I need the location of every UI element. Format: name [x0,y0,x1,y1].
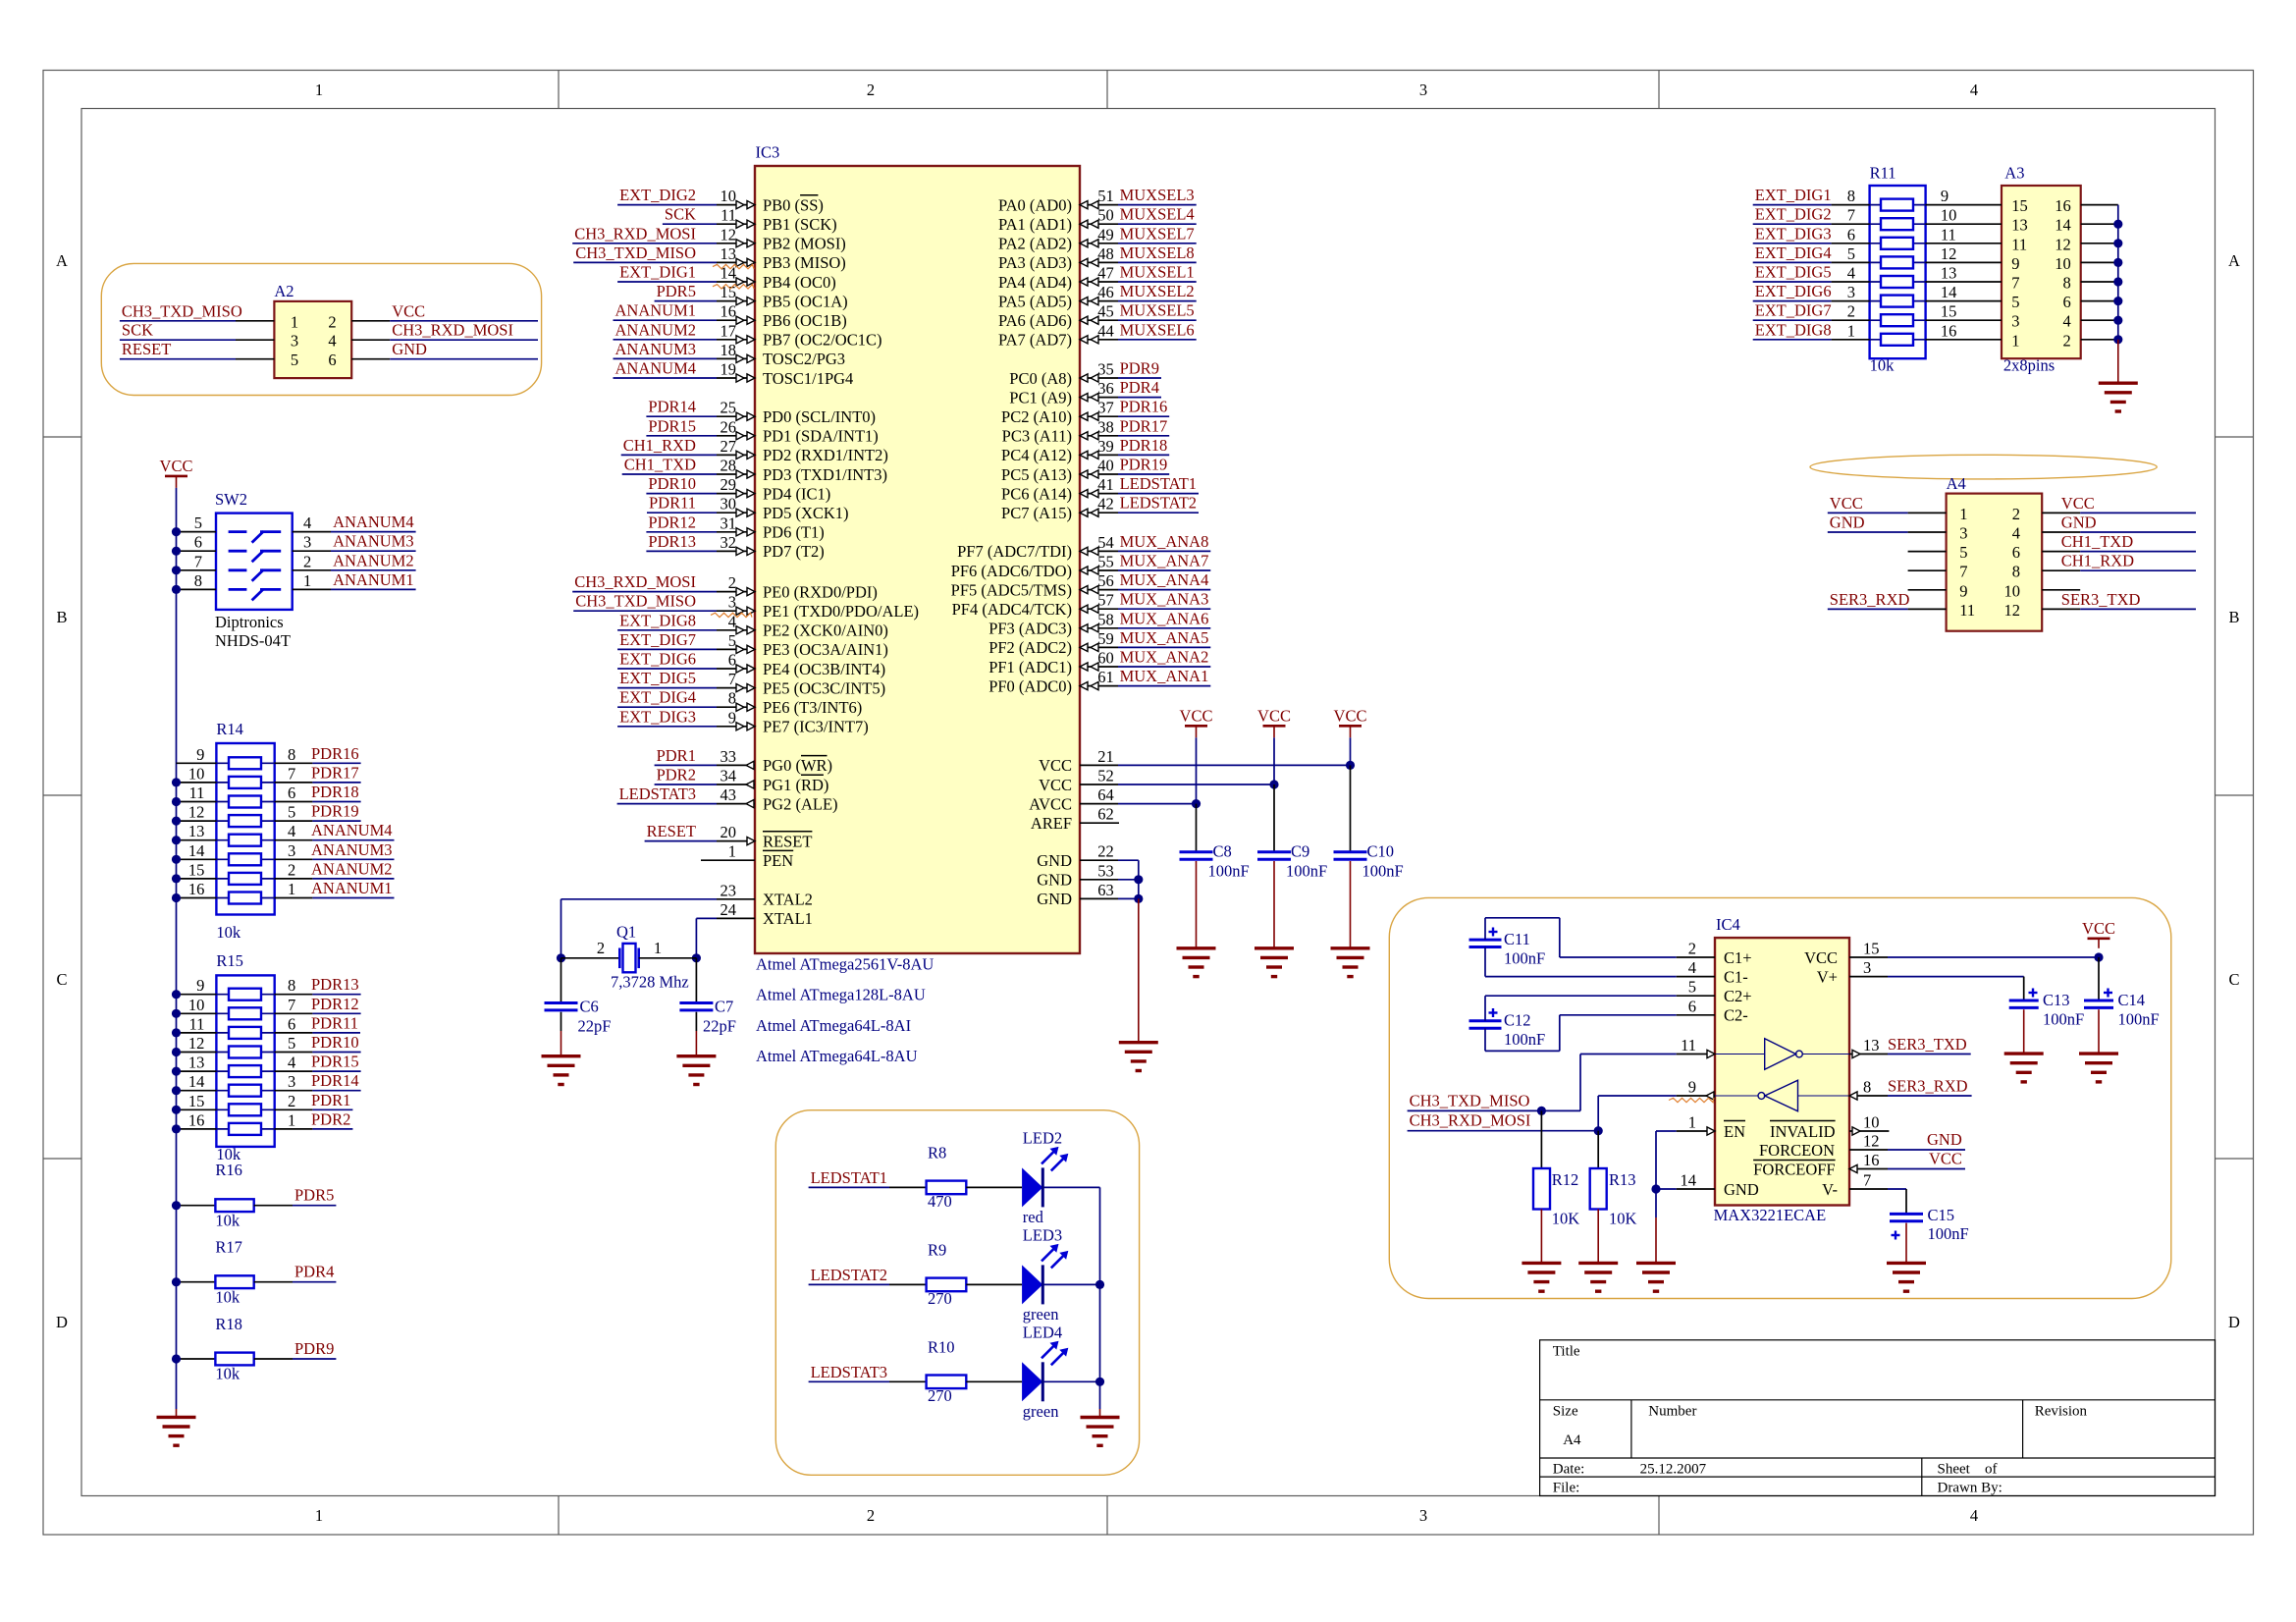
IC3 pin 38 PC3 (A11) net PDR17 [1080,435,1118,437]
svg-text:24: 24 [721,900,737,919]
svg-text:4: 4 [2062,312,2070,331]
svg-text:34: 34 [721,767,737,785]
svg-text:C1+: C1+ [1724,948,1752,967]
IC3 pin 53 GND wire [1080,879,1118,881]
R14 element 8 [216,897,274,899]
ERC marks orange [713,264,754,268]
stub A4 pin 5 [1908,551,1947,553]
svg-text:GND: GND [2061,514,2097,532]
svg-text:13: 13 [2011,216,2028,235]
svg-text:PA2 (AD2): PA2 (AD2) [998,235,1072,253]
svg-text:PDR9: PDR9 [294,1339,334,1358]
svg-text:PDR5: PDR5 [294,1186,334,1205]
svg-text:3: 3 [728,593,736,612]
svg-text:PDR2: PDR2 [311,1109,350,1128]
svg-text:6: 6 [194,533,202,552]
wire VCC column C8 [1196,737,1198,803]
group outline ellipse (A4) [1810,455,2157,479]
svg-text:10k: 10k [215,1287,240,1306]
svg-text:470: 470 [928,1192,952,1211]
wire net EXT_DIG6 to R11 pin 3 [1753,300,1832,302]
svg-text:PB4 (OC0): PB4 (OC0) [763,273,836,292]
wire R14 pin 7 net PDR17 [275,782,313,784]
svg-text:LED4: LED4 [1023,1323,1062,1341]
wire LED2 to bus [1042,1186,1099,1188]
capacitor C6 [561,958,562,1002]
svg-text:C: C [56,970,67,989]
svg-text:10: 10 [188,764,205,783]
svg-text:TOSC2/PG3: TOSC2/PG3 [763,350,845,368]
wire net EXT_DIG2 to R11 pin 7 [1753,223,1832,225]
svg-text:40: 40 [1097,457,1114,475]
wire R15 pin 10 [177,1012,217,1014]
svg-text:13: 13 [188,1054,205,1072]
wire R11 pin 14 to A3 [1926,300,2002,302]
svg-text:ANANUM4: ANANUM4 [615,359,697,378]
wire R15 pin 4 net PDR15 [275,1070,313,1072]
capacitor C8 [1180,850,1213,853]
svg-text:GND: GND [392,340,427,358]
wire IC4 pin 1 EN to GND net [1656,1130,1677,1132]
wire R10 to LED4 [966,1380,1022,1382]
svg-text:9: 9 [2011,254,2019,273]
svg-text:PD5 (XCK1): PD5 (XCK1) [763,504,849,522]
svg-text:VCC: VCC [2082,919,2115,938]
svg-text:Drawn By:: Drawn By: [1938,1481,2002,1496]
ground (C13) [2004,1052,2044,1054]
svg-text:PDR15: PDR15 [648,416,696,435]
wire C12- to IC4 pin 6 [1484,1028,1486,1051]
IC3 pin 48 PA3 (AD3) net MUXSEL8 [1080,261,1118,263]
svg-text:EXT_DIG5: EXT_DIG5 [619,669,696,687]
svg-text:10: 10 [2055,254,2071,273]
wire R15 pin 5 net PDR10 [275,1052,313,1054]
svg-text:A3: A3 [2004,164,2024,183]
svg-text:PB1 (SCK): PB1 (SCK) [763,215,837,234]
svg-text:ANANUM2: ANANUM2 [311,859,393,878]
svg-text:VCC: VCC [1804,948,1838,967]
IC3 pin 18 TOSC2/PG3 net ANANUM3 [614,357,718,359]
svg-text:5: 5 [1688,978,1696,997]
svg-text:EN: EN [1724,1122,1745,1141]
A3 ground bus vertical [2117,205,2119,340]
svg-text:6: 6 [728,651,736,670]
svg-text:VCC: VCC [1180,707,1213,726]
wire R11 pin 15 to A3 [1926,319,2002,321]
wire IC4 pin 3 V+ [1849,976,1888,978]
junction dot A3 pin 2 [2113,335,2122,344]
svg-text:A: A [2228,251,2240,270]
svg-text:SCK: SCK [665,205,696,224]
svg-text:Sheet: Sheet [1938,1462,1971,1478]
IC3 pin 57 PF4 (ADC4/TCK) net MUX_ANA3 [1080,608,1118,610]
svg-text:GND: GND [1830,514,1865,532]
R14 element 7 [216,878,274,880]
svg-text:1: 1 [291,312,298,331]
svg-text:270: 270 [928,1289,952,1308]
R15 element 8 [216,1128,274,1130]
svg-text:ANANUM2: ANANUM2 [615,320,697,339]
svg-text:3: 3 [1847,283,1855,301]
svg-text:23: 23 [721,881,737,899]
IC3 pin 25 PD0 net PDR14 [646,415,717,417]
IC3 pin 55 PF6 (ADC6/TDO) net MUX_ANA7 [1080,569,1118,571]
svg-text:2: 2 [728,573,736,592]
wire A2 pin 2 net VCC [351,320,390,322]
svg-text:EXT_DIG3: EXT_DIG3 [619,707,696,726]
wire A4 pin 3 net GND [1828,531,1908,533]
wire net EXT_DIG5 to R11 pin 4 [1753,281,1832,283]
svg-text:EXT_DIG7: EXT_DIG7 [1755,301,1832,320]
svg-text:PA5 (AD5): PA5 (AD5) [998,292,1072,310]
svg-text:13: 13 [721,244,737,263]
ground (LED bus) [1081,1416,1120,1419]
svg-text:PDR14: PDR14 [311,1071,359,1090]
svg-text:PD2 (RXD1/INT2): PD2 (RXD1/INT2) [763,446,888,464]
IC3 pin 61 PF0 (ADC0) net MUX_ANA1 [1080,685,1118,687]
svg-text:EXT_DIG2: EXT_DIG2 [1755,205,1832,224]
svg-text:1: 1 [1688,1113,1696,1132]
ground (C15) [1887,1262,1926,1265]
svg-text:13: 13 [188,822,205,840]
svg-text:EXT_DIG4: EXT_DIG4 [619,688,696,707]
svg-text:LED2: LED2 [1023,1128,1062,1147]
svg-text:PE0 (RXD0/PDI): PE0 (RXD0/PDI) [763,582,878,601]
wire R15 pin 14 [177,1090,217,1092]
svg-text:10K: 10K [1552,1210,1580,1228]
SW2 switch element 1 [229,530,247,533]
IC3 pin 8 PE6 net EXT_DIG4 [617,706,717,708]
svg-text:12: 12 [2004,601,2021,620]
svg-text:PG0 (WR): PG0 (WR) [763,756,832,775]
svg-text:21: 21 [1097,747,1114,766]
svg-text:CH1_RXD: CH1_RXD [2061,552,2134,570]
svg-text:PDR13: PDR13 [311,975,359,994]
SW2 switch element 3 [229,568,247,571]
IC3 pin 47 PA4 (AD4) net MUXSEL1 [1080,281,1118,283]
svg-text:C14: C14 [2118,991,2146,1009]
svg-text:11: 11 [189,784,205,802]
LED cathode bus [1099,1187,1101,1409]
R11 element 4 [1870,261,1926,263]
wire R16 net PDR5 [254,1205,293,1207]
svg-text:10k: 10k [215,1211,240,1229]
svg-text:6: 6 [288,1014,295,1033]
svg-text:10: 10 [2004,581,2021,600]
svg-text:GND: GND [1927,1130,1962,1149]
svg-text:EXT_DIG8: EXT_DIG8 [1755,320,1832,339]
wire IC4 pin 13 SER3_TXD [1849,1054,1888,1055]
svg-text:MUXSEL8: MUXSEL8 [1120,243,1195,262]
svg-text:CH1_RXD: CH1_RXD [623,436,696,455]
ground (C14) [2079,1052,2118,1054]
wire R11 pin 16 to A3 [1926,339,2002,341]
IC3 pin 54 PF7 (ADC7/TDI) net MUX_ANA8 [1080,550,1118,552]
svg-text:15: 15 [188,860,205,879]
svg-text:PDR17: PDR17 [1120,416,1168,435]
wire IC4 pin 8 SER3_RXD [1849,1095,1888,1097]
svg-text:PDR13: PDR13 [648,532,696,551]
svg-text:SER3_RXD: SER3_RXD [1830,590,1910,609]
svg-text:16: 16 [188,880,205,898]
svg-text:File:: File: [1553,1481,1580,1496]
wire R15 pin 2 net PDR1 [275,1108,313,1110]
svg-text:7: 7 [1863,1171,1871,1190]
IC3 pin 13 PB3 net CH3_TXD_MISO [573,261,717,263]
svg-text:RESET: RESET [647,822,696,840]
svg-text:6: 6 [328,351,336,369]
junction dot A3 pin 8 [2113,277,2122,286]
wire R15 pin 1 net PDR2 [275,1128,313,1130]
junction dot R15 pin 14 [172,1086,181,1095]
svg-text:CH3_RXD_MOSI: CH3_RXD_MOSI [392,321,513,340]
svg-text:9: 9 [196,976,204,995]
wire R14 pin 11 [177,801,217,803]
svg-text:2: 2 [867,81,875,99]
svg-text:V+: V+ [1817,967,1838,986]
group outline RS232 (IC4) [1389,897,2171,1298]
svg-text:TOSC1/1PG4: TOSC1/1PG4 [763,369,853,388]
svg-text:PC1 (A9): PC1 (A9) [1009,388,1072,406]
svg-text:10K: 10K [1609,1210,1637,1228]
svg-text:4: 4 [1970,81,1978,99]
svg-text:50: 50 [1097,206,1114,225]
IC3 pin 60 PF1 (ADC1) net MUX_ANA2 [1080,666,1118,668]
wire R11 pin 11 to A3 [1926,243,2002,244]
svg-text:Atmel ATmega128L-8AU: Atmel ATmega128L-8AU [756,986,926,1004]
svg-text:PD4 (IC1): PD4 (IC1) [763,484,830,503]
R15 element 7 [216,1108,274,1110]
svg-text:MAX3221ECAE: MAX3221ECAE [1714,1206,1827,1224]
svg-text:16: 16 [1941,321,1957,340]
svg-text:LEDSTAT3: LEDSTAT3 [619,784,696,803]
svg-text:A4: A4 [1563,1433,1581,1448]
svg-text:30: 30 [721,495,737,514]
svg-text:Revision: Revision [2035,1403,2088,1419]
IC3 pin 10 PB0 net EXT_DIG2 [617,204,717,206]
svg-text:11: 11 [721,206,736,225]
wire R14 pin 13 [177,839,217,841]
wire SW2 pin 4 net ANANUM4 [293,531,331,533]
svg-text:R9: R9 [928,1241,946,1260]
svg-text:D: D [2228,1313,2240,1331]
svg-text:D: D [56,1313,68,1331]
svg-text:R18: R18 [215,1315,242,1333]
wire SW2 pin 1 net ANANUM1 [293,588,331,590]
svg-text:green: green [1023,1305,1059,1324]
junction dot R12 tap [1537,1107,1546,1115]
ground (C10) [1331,946,1370,949]
wire R14 pin 14 [177,858,217,860]
svg-text:CH3_RXD_MOSI: CH3_RXD_MOSI [1410,1111,1531,1130]
svg-text:PDR12: PDR12 [648,513,696,531]
svg-text:20: 20 [721,823,737,841]
wire net EXT_DIG7 to R11 pin 2 [1753,319,1832,321]
svg-text:red: red [1023,1208,1044,1226]
svg-text:PDR1: PDR1 [657,746,696,765]
wire C11- to IC4 pin 4 [1484,947,1486,977]
svg-text:ANANUM3: ANANUM3 [311,840,393,859]
R14 element 5 [216,839,274,841]
svg-text:10: 10 [1863,1113,1880,1132]
svg-text:CH3_TXD_MISO: CH3_TXD_MISO [575,592,696,611]
svg-text:EXT_DIG3: EXT_DIG3 [1755,224,1832,243]
wire R8 to LED2 [966,1186,1022,1188]
svg-text:48: 48 [1097,244,1114,263]
svg-text:8: 8 [728,689,736,708]
svg-text:47: 47 [1097,264,1114,283]
svg-text:3: 3 [1959,524,1967,543]
svg-text:100nF: 100nF [1362,862,1404,881]
wire C12+ to IC4 pin 5 [1484,996,1486,1021]
svg-text:MUXSEL6: MUXSEL6 [1120,320,1195,339]
svg-text:28: 28 [721,457,737,475]
svg-text:3: 3 [288,1072,295,1091]
svg-text:9: 9 [1959,581,1967,600]
svg-text:CH3_RXD_MOSI: CH3_RXD_MOSI [574,572,696,591]
ground (R12) [1522,1262,1561,1265]
ground (left bus) [157,1416,196,1419]
resistor R13 [1597,1131,1599,1168]
svg-text:1: 1 [1959,505,1967,523]
svg-text:12: 12 [188,803,205,822]
stub IC4 pin 10 INVALID [1849,1130,1889,1132]
svg-text:C9: C9 [1291,842,1309,861]
svg-text:2: 2 [2062,331,2070,350]
wire A4 pin 12 net SER3_TXD [2042,608,2080,610]
svg-text:13: 13 [1863,1036,1880,1054]
junction dot SW2 pin 6 [172,547,181,556]
IC3 pin 27 PD2 net CH1_RXD [621,454,717,456]
svg-text:8: 8 [2012,563,2020,581]
svg-text:MUXSEL7: MUXSEL7 [1120,224,1195,243]
svg-text:PDR2: PDR2 [657,766,696,784]
wire R15 pin 9 [177,994,217,996]
wire A4 pin 8 net CH1_RXD [2042,569,2080,571]
IC3 pin 5 PE3 net EXT_DIG7 [617,648,717,650]
svg-text:PF1 (ADC1): PF1 (ADC1) [988,658,1072,676]
svg-text:EXT_DIG8: EXT_DIG8 [619,611,696,629]
svg-text:CH3_TXD_MISO: CH3_TXD_MISO [122,301,242,320]
junction dot SW2 pin 7 [172,566,181,574]
IC3 pin 43 PG2 net LEDSTAT3 [617,803,717,805]
ground (IC4 EN/GND) [1636,1262,1676,1265]
R11 element 7 [1870,319,1926,321]
svg-text:VCC: VCC [2061,494,2095,513]
svg-text:LEDSTAT2: LEDSTAT2 [811,1266,887,1284]
IC3 pin 52 VCC wire [1080,784,1118,785]
junction dot SW2 pin 5 [172,527,181,536]
wire SW2 pin 5 [177,531,217,533]
IC3 pin 3 PE1 net CH3_TXD_MISO [573,610,717,612]
svg-text:PB0 (SS): PB0 (SS) [763,195,824,214]
svg-text:27: 27 [721,437,737,456]
svg-text:31: 31 [721,514,737,532]
IC3 pin 1 PEN [701,859,755,861]
svg-text:MUX_ANA1: MUX_ANA1 [1120,667,1209,685]
svg-text:A4: A4 [1947,474,1966,493]
IC3 pin 31 PD6 net PDR12 [646,531,717,533]
svg-text:5: 5 [291,351,298,369]
junction dot R14 pin 13 [172,836,181,844]
svg-text:ANANUM3: ANANUM3 [615,340,697,358]
svg-text:C1-: C1- [1724,967,1748,986]
svg-text:MUXSEL4: MUXSEL4 [1120,205,1195,224]
svg-text:7: 7 [1847,206,1855,225]
wire R14 pin 1 net ANANUM1 [275,897,313,899]
svg-text:3: 3 [291,332,298,351]
svg-text:PDR19: PDR19 [1120,456,1168,474]
svg-text:2: 2 [597,939,605,957]
wire SW2 pin 6 [177,550,217,552]
R15 element 5 [216,1070,274,1072]
svg-text:green: green [1023,1402,1059,1421]
svg-text:PF3 (ADC3): PF3 (ADC3) [988,620,1072,638]
svg-text:PD3 (TXD1/INT3): PD3 (TXD1/INT3) [763,465,887,484]
wire VCC column C9 [1273,737,1275,784]
IC3 pin 16 PB6 net ANANUM1 [614,319,718,321]
wire R15 pin 8 net PDR13 [275,994,313,996]
wire A4 pin 6 net CH1_TXD [2042,551,2080,553]
stub A4 pin 9 [1908,589,1947,591]
wire A3 pin 10 to ground bus [2081,261,2118,263]
svg-text:INVALID: INVALID [1770,1122,1836,1141]
svg-text:PDR17: PDR17 [311,763,359,782]
wire R15 pin 15 [177,1108,217,1110]
svg-text:R15: R15 [216,951,243,970]
svg-text:11: 11 [2011,235,2027,253]
svg-text:10k: 10k [216,923,241,942]
svg-text:5: 5 [2011,293,2019,311]
svg-text:14: 14 [188,841,205,860]
IC3 pin 50 PA1 (AD1) net MUXSEL4 [1080,223,1118,225]
R11 element 6 [1870,300,1926,302]
svg-text:VCC: VCC [1334,707,1367,726]
svg-text:PDR10: PDR10 [648,474,696,493]
svg-text:7: 7 [1959,563,1967,581]
svg-text:8: 8 [288,745,295,764]
svg-text:63: 63 [1097,881,1114,899]
R11 element 5 [1870,281,1926,283]
ground (C7) [676,1054,716,1057]
junction dot R15 pin 11 [172,1028,181,1037]
svg-text:LED3: LED3 [1023,1225,1062,1244]
svg-text:NHDS-04T: NHDS-04T [215,631,291,650]
junction dot R14 pin 11 [172,797,181,806]
svg-text:PDR4: PDR4 [294,1263,334,1281]
svg-text:2: 2 [2012,505,2020,523]
svg-text:ANANUM4: ANANUM4 [333,513,414,531]
svg-text:5: 5 [1959,543,1967,562]
svg-text:4: 4 [303,514,311,532]
wire R14 pin 16 [177,897,217,899]
IC3 pin 21 VCC wire [1080,764,1118,766]
svg-text:VCC: VCC [1830,494,1863,513]
junction dot R15 pin 13 [172,1067,181,1076]
svg-text:22pF: 22pF [703,1017,736,1036]
svg-text:SCK: SCK [122,321,153,340]
svg-text:PD0 (SCL/INT0): PD0 (SCL/INT0) [763,407,876,426]
junction dot R15 pin 16 [172,1124,181,1133]
svg-text:4: 4 [288,822,295,840]
R15 element 4 [216,1052,274,1054]
svg-text:PA7 (AD7): PA7 (AD7) [998,331,1072,350]
wire R11 pin 10 to A3 [1926,223,2002,225]
svg-text:SER3_TXD: SER3_TXD [1888,1035,1967,1054]
wire R14 pin 9 [177,762,217,764]
svg-text:of: of [1985,1462,1998,1478]
IC3 pin 29 PD4 net PDR10 [646,493,717,495]
